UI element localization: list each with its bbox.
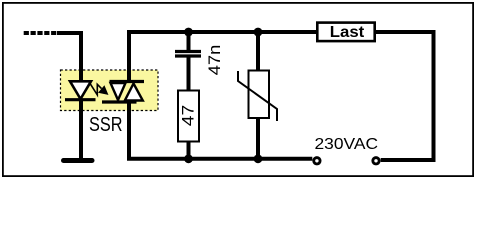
svg-text:47n: 47n [205, 45, 224, 76]
svg-text:230VAC: 230VAC [315, 136, 379, 153]
svg-text:Last: Last [330, 24, 365, 41]
svg-text:SSR: SSR [89, 114, 123, 136]
svg-text:47: 47 [180, 105, 198, 127]
